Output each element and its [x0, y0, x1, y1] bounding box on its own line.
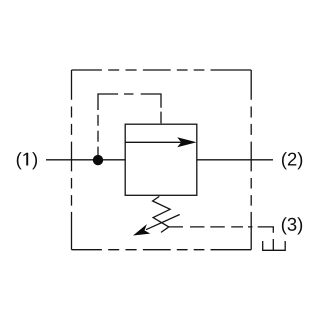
valve body square U1: [125, 124, 197, 195]
outer dashed enclosure bottom edge: [72, 249, 252, 251]
port line (2) wire: [197, 159, 273, 161]
tank symbol at port 3: [263, 241, 286, 250]
adjustment arrowhead: [133, 224, 150, 235]
spring (zigzag): [153, 196, 171, 232]
outer dashed enclosure left edge: [71, 70, 73, 250]
pilot dashed line: from node up: [98, 94, 161, 160]
outer dashed enclosure right edge: [250, 70, 252, 250]
label (3): [282, 217, 302, 234]
adjustment arrow shaft: [146, 215, 180, 230]
label (2): [282, 152, 302, 169]
outer dashed enclosure top edge: [72, 69, 252, 71]
label (1): [17, 152, 37, 169]
flow arrow shaft inside valve: [125, 141, 181, 143]
drain dashed line to port 3: [169, 227, 273, 250]
port line (1) wire: [46, 159, 125, 161]
flow arrowhead: [177, 137, 196, 147]
junction node dot: [93, 155, 103, 165]
